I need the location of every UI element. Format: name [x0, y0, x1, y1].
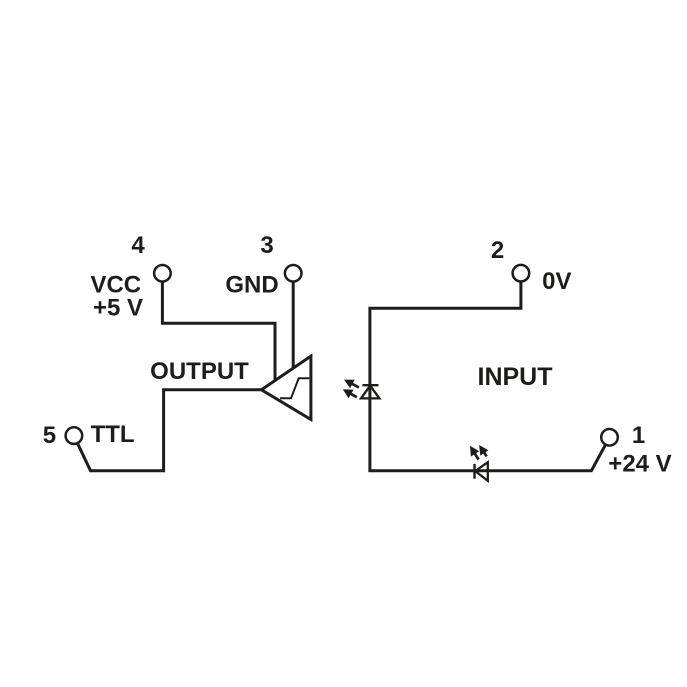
LED D2 triangle [475, 462, 488, 481]
light arrow at D1 (upper) [344, 380, 359, 389]
light arrow at D1 (lower) [343, 389, 357, 398]
svg-text:3: 3 [260, 232, 273, 259]
pin 1 terminal [601, 429, 618, 446]
svg-text:4: 4 [131, 232, 145, 259]
svg-text:+5 V: +5 V [93, 295, 143, 322]
svg-text:0V: 0V [542, 268, 571, 295]
svg-text:GND: GND [225, 272, 278, 299]
photodiode D1 triangle [361, 386, 379, 399]
hysteresis symbol inside U1 [280, 378, 309, 398]
svg-text:+24 V: +24 V [608, 451, 671, 478]
photodiode D1 cathode bar [363, 384, 379, 386]
svg-text:TTL: TTL [91, 421, 135, 448]
svg-text:INPUT: INPUT [478, 363, 553, 391]
wire VCC branch: pin 4 to amplifier [162, 273, 275, 382]
light arrow at D2 (left) [470, 446, 479, 460]
wire OUTPUT: amplifier apex to pin 5 [74, 390, 262, 471]
svg-text:2: 2 [491, 237, 504, 264]
op-amp U1 (Schmitt-trigger buffer) [261, 356, 311, 419]
LED D2 cathode bar [473, 464, 475, 479]
wire INPUT: pin 2 to photodiode to LED to pin 1 [370, 273, 610, 471]
svg-text:5: 5 [43, 422, 56, 449]
pin 3 terminal [285, 265, 302, 282]
svg-text:OUTPUT: OUTPUT [150, 358, 249, 385]
pin 4 terminal [154, 265, 171, 282]
pin 2 terminal [513, 265, 530, 282]
pin 5 terminal [66, 427, 83, 444]
wire GND branch: pin 3 to amplifier [292, 273, 295, 370]
light arrow at D2 (right) [479, 445, 488, 456]
svg-text:1: 1 [632, 422, 645, 449]
